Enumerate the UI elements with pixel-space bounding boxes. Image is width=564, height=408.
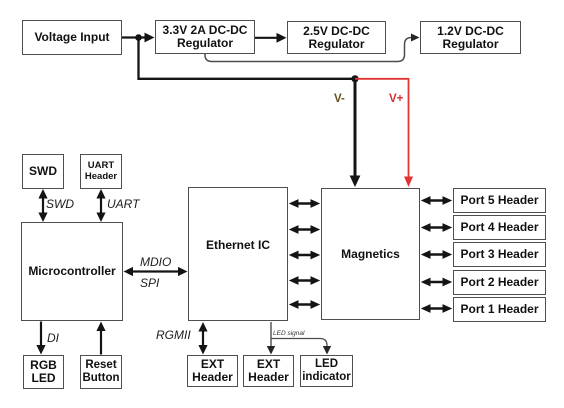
wire 3.3V to 2.5V regulator <box>255 37 279 39</box>
box RGB LED <box>23 355 64 389</box>
wire DI arrow <box>40 322 42 348</box>
box Voltage Input <box>22 20 122 55</box>
arrowhead into 3.3V regulator <box>145 33 155 43</box>
box 2.5V DC-DC Regulator <box>287 21 386 54</box>
wire Magnetics Port 1 arrow <box>421 304 452 313</box>
arrowhead Reset up <box>96 322 105 332</box>
wire RGMII double arrow <box>202 329 204 348</box>
arrowhead into EXT Header 2 <box>267 346 275 355</box>
wire node A down and right to node B <box>139 38 355 79</box>
label RGMII <box>156 328 191 342</box>
wire SWD double arrow <box>42 196 44 214</box>
box EXT Header 1 <box>187 355 238 387</box>
label V+ <box>389 93 403 105</box>
arrowhead RGMII down <box>198 345 207 355</box>
arrowhead UART down <box>96 213 105 223</box>
wire Magnetics Port 2 arrow <box>421 278 452 287</box>
arrowhead into 2.5V regulator <box>277 33 287 43</box>
wire Magnetics Port 3 arrow <box>421 250 452 259</box>
label UART (wire) <box>107 197 139 211</box>
junction dot node A <box>135 34 142 41</box>
label LED signal <box>273 330 304 337</box>
box UART Header <box>80 154 122 189</box>
box Port 4 Header <box>453 215 546 240</box>
box Port 3 Header <box>453 242 546 267</box>
wire 3.3V regulator to 1.2V regulator <box>205 38 412 62</box>
label MDIO <box>140 255 171 269</box>
wire Magnetics Port 5 arrow <box>421 196 452 205</box>
arrowhead DI down <box>36 345 45 355</box>
arrowhead V- into Magnetics <box>350 176 361 188</box>
label DI <box>47 331 59 345</box>
wire Ethernet IC Magnetics arrow 2 <box>289 225 320 234</box>
box Port 1 Header <box>453 297 546 322</box>
box LED indicator <box>300 355 353 387</box>
box Reset Button <box>80 355 122 389</box>
box 3.3V 2A DC-DC Regulator <box>155 20 255 54</box>
wire V- thick drop to Magnetics <box>354 79 357 177</box>
box Magnetics <box>321 188 420 320</box>
arrowhead RGMII up <box>198 322 207 332</box>
arrowhead MDIO right <box>178 267 188 276</box>
box SWD <box>22 154 64 189</box>
box 1.2V DC-DC Regulator <box>420 21 521 54</box>
wire MDIO SPI double arrow <box>130 270 181 272</box>
box EXT Header 2 <box>243 355 294 387</box>
box Port 2 Header <box>453 270 546 295</box>
wire Magnetics Port 4 arrow <box>421 223 452 232</box>
wire Ethernet IC Magnetics arrow 3 <box>289 251 320 260</box>
arrowhead UART up <box>96 189 105 199</box>
wire UART double arrow <box>100 196 102 214</box>
arrowhead SWD up <box>38 189 47 199</box>
wire Ethernet IC to EXT Header 2 <box>270 322 272 348</box>
arrowhead into 1.2V regulator <box>411 34 420 42</box>
wire Voltage Input to 3.3V regulator <box>122 36 146 38</box>
wire Ethernet IC Magnetics arrow 1 <box>289 199 320 208</box>
label V- <box>334 93 345 105</box>
wire LED signal <box>271 339 327 348</box>
wire V+ red <box>355 79 409 178</box>
box Microcontroller <box>21 222 123 321</box>
box Ethernet IC <box>188 187 288 321</box>
wire Reset Button arrow <box>100 329 102 355</box>
label SPI <box>140 276 159 290</box>
wire Ethernet IC Magnetics arrow 4 <box>289 276 320 285</box>
label SWD (wire) <box>46 197 74 211</box>
wire Ethernet IC Magnetics arrow 5 <box>289 300 320 309</box>
arrowhead into LED indicator <box>323 346 331 355</box>
arrowhead MDIO left <box>124 267 134 276</box>
box Port 5 Header <box>453 188 546 213</box>
arrowhead SWD down <box>38 213 47 223</box>
arrowhead V+ red into Magnetics <box>404 177 413 188</box>
junction dot node B <box>351 75 358 82</box>
